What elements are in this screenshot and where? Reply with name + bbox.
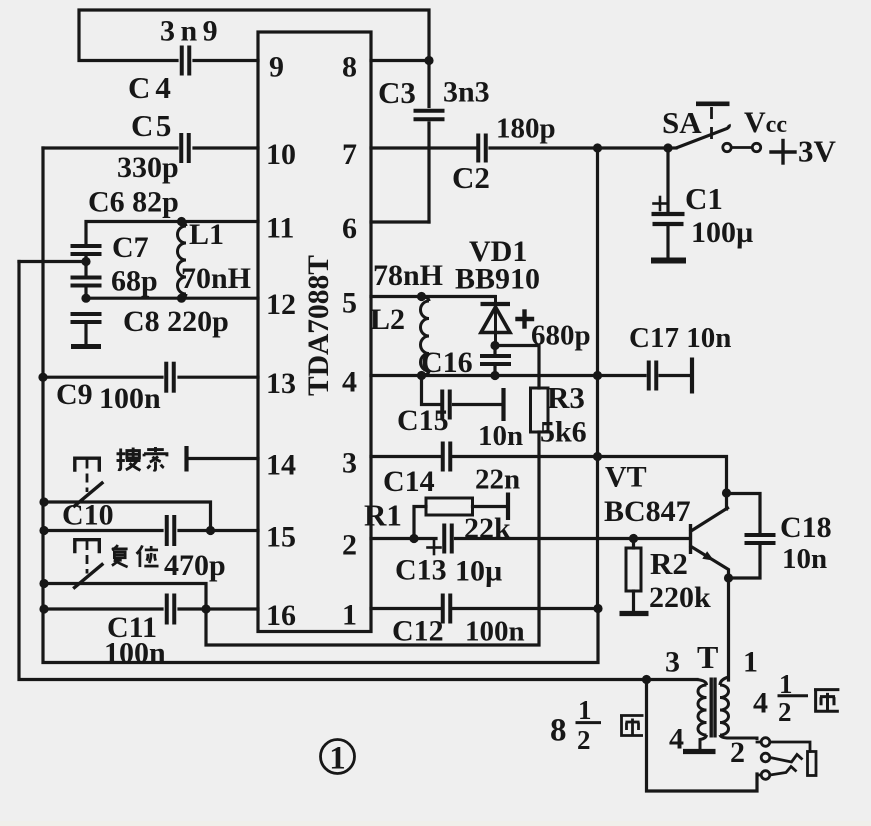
svg-text:C14: C14 bbox=[383, 465, 435, 498]
capacitor C12 bbox=[443, 594, 451, 624]
label C7 bbox=[112, 231, 149, 264]
capacitor C2 bbox=[478, 134, 486, 163]
svg-text:4: 4 bbox=[669, 723, 684, 756]
label C16 value 680p bbox=[531, 320, 591, 352]
node outer rail to transformer bbox=[642, 675, 651, 684]
wire main right rail bbox=[596, 148, 599, 609]
node R1 on pin2 wire bbox=[409, 534, 418, 543]
label R3 bbox=[547, 380, 585, 415]
label C14 value 22n bbox=[475, 464, 520, 496]
node pin4 on rail bbox=[593, 371, 602, 380]
label C2 bbox=[452, 160, 490, 195]
label C3 bbox=[378, 75, 416, 110]
svg-text:1: 1 bbox=[329, 741, 346, 777]
label transformer pin 1 bbox=[743, 646, 758, 679]
terminal bar C15 bbox=[501, 388, 505, 421]
label C2 value 180p bbox=[496, 113, 556, 145]
capacitor C1 polarity + bbox=[654, 197, 667, 210]
svg-text:3V: 3V bbox=[798, 134, 837, 169]
transistor VT collector bbox=[691, 508, 728, 531]
svg-text:78nH: 78nH bbox=[373, 259, 443, 292]
label R1 value 22k bbox=[464, 512, 511, 545]
svg-text:13: 13 bbox=[266, 367, 296, 400]
label primary turns 8 bbox=[550, 713, 567, 749]
wire inner left rail bbox=[43, 148, 598, 663]
label C6 82p bbox=[88, 186, 179, 219]
svg-text:C13: C13 bbox=[395, 554, 447, 587]
label primary turns fraction 1/2 bbox=[576, 695, 602, 755]
wire R3 bottom return to pin16 node bbox=[206, 432, 539, 645]
svg-text:8: 8 bbox=[342, 51, 357, 84]
svg-text:16: 16 bbox=[266, 599, 296, 632]
label C9 bbox=[56, 378, 93, 411]
wire C13 to base bbox=[456, 537, 688, 540]
wire R1 left lead bbox=[414, 507, 426, 539]
capacitor C5 bbox=[181, 133, 189, 163]
svg-text:C2: C2 bbox=[452, 160, 490, 195]
label R2 bbox=[650, 546, 688, 581]
svg-text:T: T bbox=[697, 639, 718, 675]
svg-text:C18: C18 bbox=[780, 511, 832, 544]
node search wire to pin 15 bbox=[206, 526, 215, 535]
wire C14 to rail bbox=[454, 455, 598, 458]
switch SA blade bbox=[668, 125, 729, 149]
svg-text:2: 2 bbox=[342, 529, 357, 562]
wire pin 14 bbox=[188, 457, 258, 460]
jack plug body bbox=[808, 752, 817, 776]
label C10 value 470p bbox=[164, 549, 226, 582]
capacitor C9 bbox=[166, 362, 174, 393]
switch SW search link dashes bbox=[86, 460, 89, 493]
wire C6 to C7 node bbox=[84, 254, 87, 275]
label reset 复位 bbox=[112, 545, 159, 567]
switch SA contact circles bbox=[723, 143, 761, 151]
wire pin 15 bbox=[44, 529, 258, 532]
wire emitter down to transformer bbox=[727, 578, 730, 680]
terminal bar R2 ground bbox=[620, 611, 649, 616]
label secondary turns 匝 bbox=[814, 690, 839, 712]
wire jack tip to plug bbox=[770, 742, 810, 752]
wire pin 10 to C5 bbox=[43, 146, 258, 149]
wire rail to collector bbox=[598, 457, 727, 510]
capacitor C6 bbox=[71, 246, 102, 254]
label L1 bbox=[189, 218, 224, 251]
svg-text:5: 5 bbox=[342, 287, 357, 320]
label transformer pin 2 bbox=[730, 736, 745, 769]
node emitter bbox=[724, 573, 733, 582]
svg-text:3n9: 3n9 bbox=[160, 15, 223, 48]
wire reset node to pin16 node bbox=[44, 584, 206, 610]
svg-text:C8 220p: C8 220p bbox=[123, 305, 229, 338]
inductor L1 bbox=[178, 222, 187, 299]
svg-text:1: 1 bbox=[743, 646, 758, 679]
capacitor C11 bbox=[167, 594, 175, 625]
switch SW reset contacts bbox=[75, 540, 100, 552]
label C10 bbox=[62, 499, 114, 532]
svg-text:VT: VT bbox=[605, 461, 647, 494]
wire C12 to rail bbox=[454, 607, 599, 610]
svg-text:BC847: BC847 bbox=[604, 495, 691, 528]
wire collector to C18 bbox=[727, 494, 761, 533]
node L1 top bbox=[177, 217, 186, 226]
terminal bar pin 14 bbox=[184, 446, 188, 472]
wire R2 top lead bbox=[632, 539, 635, 549]
wire pin 16 bbox=[44, 607, 258, 610]
svg-text:2: 2 bbox=[778, 697, 792, 727]
svg-text:C1: C1 bbox=[685, 181, 723, 216]
svg-text:100n: 100n bbox=[99, 382, 161, 415]
wire pin 13 to C9 bbox=[43, 376, 258, 379]
svg-text:14: 14 bbox=[266, 449, 296, 482]
svg-text:3: 3 bbox=[665, 646, 680, 679]
label C18 bbox=[780, 511, 832, 544]
svg-text:6: 6 bbox=[342, 212, 357, 245]
node L1 bottom bbox=[177, 294, 186, 303]
label C4 value 3n9 bbox=[160, 15, 223, 48]
svg-text:1: 1 bbox=[578, 695, 592, 725]
capacitor C1 plates bbox=[652, 214, 685, 224]
label C7 value 68p bbox=[111, 265, 158, 298]
node L2 bottom on pin4 bbox=[417, 371, 426, 380]
wire C7 to pin 12 bbox=[84, 286, 87, 299]
label C5 value 330p bbox=[117, 151, 179, 184]
node reset wire to pin 16 bbox=[201, 604, 210, 613]
svg-text:470p: 470p bbox=[164, 549, 226, 582]
label C16 bbox=[421, 346, 473, 379]
switch SA actuator dashed link bbox=[710, 107, 713, 144]
wire pin 2 to C13 bbox=[371, 537, 436, 540]
svg-text:680p: 680p bbox=[531, 320, 591, 352]
resistor R2 bbox=[626, 548, 641, 591]
svg-text:C15: C15 bbox=[397, 404, 449, 437]
svg-text:SA: SA bbox=[662, 105, 702, 140]
wire C1 top bbox=[666, 148, 669, 211]
resistor R1 bbox=[426, 498, 473, 515]
capacitor C13 bbox=[444, 524, 452, 554]
terminal bar below C8 bbox=[71, 344, 101, 349]
wire pin 1 to C12 bbox=[371, 607, 440, 610]
svg-text:10n: 10n bbox=[782, 543, 827, 575]
svg-text:12: 12 bbox=[266, 288, 296, 321]
svg-text:5k6: 5k6 bbox=[540, 416, 587, 449]
wire C15 right bbox=[454, 403, 502, 406]
wire R1 right lead bbox=[473, 505, 506, 508]
node SA/C1 bbox=[663, 143, 672, 152]
wire pin 4 bbox=[371, 374, 598, 377]
svg-text:1: 1 bbox=[342, 599, 357, 632]
switch SW search contacts bbox=[75, 458, 100, 470]
figure number circle 1 bbox=[321, 740, 355, 777]
wire C15 left bbox=[422, 376, 440, 405]
wire pin 11 bbox=[86, 222, 258, 244]
label C5 bbox=[131, 108, 174, 143]
node supply rail top bbox=[593, 143, 602, 152]
svg-text:8: 8 bbox=[550, 713, 567, 749]
wire R2 bottom lead bbox=[632, 591, 635, 611]
svg-text:22n: 22n bbox=[475, 464, 520, 496]
svg-text:L1: L1 bbox=[189, 218, 224, 251]
wire pin 12 bbox=[86, 297, 258, 300]
wire C8 to end bar bbox=[84, 322, 87, 344]
capacitor C4 bbox=[182, 46, 190, 76]
node reset blade on rail bbox=[39, 579, 48, 588]
node VD1/C16/680p junction bbox=[490, 341, 499, 350]
transformer T primary winding bbox=[697, 680, 707, 752]
label VD1 bbox=[469, 235, 527, 268]
capacitor C17 bbox=[649, 361, 657, 391]
capacitor C3 bbox=[414, 111, 445, 120]
jack contact 1 bbox=[757, 738, 770, 747]
label Vcc bbox=[744, 106, 787, 139]
svg-text:TDA7088T: TDA7088T bbox=[303, 255, 335, 396]
node pin3 on rail bbox=[593, 452, 602, 461]
svg-text:330p: 330p bbox=[117, 151, 179, 184]
svg-text:10: 10 bbox=[266, 138, 296, 171]
capacitor C14 bbox=[443, 442, 451, 472]
label L1 value 70nH bbox=[181, 262, 251, 295]
svg-text:3n3: 3n3 bbox=[443, 76, 490, 109]
transformer T secondary winding bbox=[720, 677, 757, 740]
svg-text:C6 82p: C6 82p bbox=[88, 186, 179, 219]
svg-text:4: 4 bbox=[753, 687, 768, 720]
wire outer rail drop to jack sleeve bbox=[647, 680, 758, 792]
capacitor C10 bbox=[167, 515, 175, 546]
svg-text:2: 2 bbox=[577, 725, 591, 755]
capacitor C18 bbox=[745, 535, 776, 543]
label C13 bbox=[395, 554, 447, 587]
label C15 value 10n bbox=[478, 420, 523, 452]
node C16 on pin4 wire bbox=[490, 371, 499, 380]
jack contact 3 spring bbox=[770, 767, 797, 776]
svg-text:68p: 68p bbox=[111, 265, 158, 298]
label VT bbox=[605, 461, 647, 494]
label secondary turns 4 bbox=[753, 687, 768, 720]
label C1 bbox=[685, 181, 723, 216]
svg-text:L2: L2 bbox=[370, 303, 405, 336]
label L2 bbox=[370, 303, 405, 336]
node C8 top on pin12 wire bbox=[81, 294, 90, 303]
svg-text:4: 4 bbox=[342, 366, 357, 399]
wire C1 bottom bbox=[666, 226, 669, 257]
resistor R3 bbox=[531, 388, 549, 432]
svg-text:C17 10n: C17 10n bbox=[629, 322, 731, 354]
svg-text:R2: R2 bbox=[650, 546, 688, 581]
label C9 value 100n bbox=[99, 382, 161, 415]
svg-text:180p: 180p bbox=[496, 113, 556, 145]
wire pin 8 bbox=[371, 59, 429, 62]
label transformer pin 4 bbox=[669, 723, 684, 756]
node R2 top on base wire bbox=[629, 534, 638, 543]
transistor VT base bar bbox=[689, 524, 692, 554]
label C14 bbox=[383, 465, 435, 498]
label R3 value 5k6 bbox=[540, 416, 587, 449]
U1 right pin numbers 8-1 bbox=[342, 51, 357, 632]
inductor L2 bbox=[421, 297, 430, 376]
varactor polarity + bbox=[518, 312, 533, 327]
capacitor C7 bbox=[71, 278, 102, 286]
label search 搜索 bbox=[117, 447, 167, 470]
capacitor C13 polarity + bbox=[428, 541, 441, 554]
svg-text:C3: C3 bbox=[378, 75, 416, 110]
wire 680p node to R3 bbox=[495, 346, 539, 389]
svg-text:10n: 10n bbox=[478, 420, 523, 452]
terminal bar C1 bottom bbox=[651, 258, 686, 264]
wire C18 bottom to emitter bbox=[729, 546, 761, 578]
terminal bar transformer pin4 ground bbox=[683, 749, 716, 754]
label VD1 type BB910 bbox=[455, 263, 540, 296]
svg-text:220k: 220k bbox=[649, 581, 711, 614]
label C4 bbox=[128, 70, 176, 105]
transformer T core bbox=[711, 678, 715, 738]
terminal bar C17 bbox=[690, 358, 694, 394]
svg-text:C7: C7 bbox=[112, 231, 149, 264]
wire antenna node to outer rail bbox=[19, 260, 86, 263]
switch SW search blade bbox=[75, 483, 103, 506]
wire search node to pin15 node bbox=[44, 502, 211, 531]
svg-text:70nH: 70nH bbox=[181, 262, 251, 295]
svg-text:7: 7 bbox=[342, 138, 357, 171]
label C12 bbox=[392, 615, 444, 648]
node pin15 on rail bbox=[39, 526, 48, 535]
svg-text:2: 2 bbox=[730, 736, 745, 769]
node collector C18 tap bbox=[722, 488, 731, 497]
jack contact 3 bbox=[757, 771, 770, 780]
jack contact 2 spring bbox=[770, 755, 803, 763]
svg-text:9: 9 bbox=[269, 51, 284, 84]
svg-text:100µ: 100µ bbox=[691, 216, 753, 249]
label C11 bbox=[107, 611, 157, 644]
label C8 220p bbox=[123, 305, 229, 338]
svg-text:C5: C5 bbox=[131, 108, 174, 143]
label transformer pin 3 bbox=[665, 646, 680, 679]
node pin8/C3 bbox=[424, 56, 433, 65]
jack contact 2 bbox=[761, 753, 770, 762]
wire C16 to pin4 wire bbox=[493, 346, 496, 376]
node C6/C7 junction to antenna rail bbox=[81, 257, 90, 266]
svg-text:100n: 100n bbox=[465, 616, 525, 648]
capacitor C16 bbox=[480, 356, 511, 364]
svg-text:15: 15 bbox=[266, 521, 296, 554]
label C18 value 10n bbox=[782, 543, 827, 575]
node L2 top bbox=[417, 292, 426, 301]
label R1 bbox=[364, 498, 402, 533]
svg-text:C10: C10 bbox=[62, 499, 114, 532]
transistor VT emitter bbox=[691, 547, 729, 578]
svg-text:C12: C12 bbox=[392, 615, 444, 648]
node pin16 on rail bbox=[39, 604, 48, 613]
label C15 bbox=[397, 404, 449, 437]
svg-text:R1: R1 bbox=[364, 498, 402, 533]
wire pin 9 to C4 and top loop to pin 8 node bbox=[79, 10, 429, 61]
varactor diode VD1 bbox=[481, 297, 511, 346]
terminal bar R1 bbox=[506, 493, 510, 521]
label C17 10n bbox=[629, 322, 731, 354]
wire C17 right bbox=[660, 374, 689, 377]
svg-text:C9: C9 bbox=[56, 378, 93, 411]
label R2 value 220k bbox=[649, 581, 711, 614]
wire outer left rail bbox=[19, 262, 697, 680]
switch SA actuator bar bbox=[696, 102, 730, 107]
svg-text:3: 3 bbox=[342, 447, 357, 480]
label L2 value 78nH bbox=[373, 259, 443, 292]
wire C17 left bbox=[598, 374, 646, 377]
label secondary turns fraction 1/2 bbox=[778, 669, 809, 727]
svg-text:C4: C4 bbox=[128, 70, 176, 105]
svg-text:100n: 100n bbox=[104, 637, 166, 670]
label VT type BC847 bbox=[604, 495, 691, 528]
svg-text:11: 11 bbox=[266, 212, 294, 245]
label C3 value 3n3 bbox=[443, 76, 490, 109]
svg-text:BB910: BB910 bbox=[455, 263, 540, 296]
label C13 value 10µ bbox=[455, 555, 502, 588]
switch SW reset blade bbox=[75, 565, 103, 588]
label C12 value 100n bbox=[465, 616, 525, 648]
label +3V bbox=[771, 134, 837, 169]
wire pin 5 bbox=[371, 295, 495, 298]
label primary turns 匝 bbox=[620, 716, 644, 736]
svg-text:R3: R3 bbox=[547, 380, 585, 415]
node C9 left on rail bbox=[38, 373, 47, 382]
U1 left pin numbers 9-16 bbox=[266, 51, 296, 633]
label transformer T bbox=[697, 639, 718, 675]
label SA bbox=[662, 105, 702, 140]
node search blade on rail bbox=[39, 497, 48, 506]
capacitor C15 bbox=[442, 390, 450, 420]
wire pin 7 to C2 bbox=[371, 146, 668, 149]
label C1 value 100µ bbox=[691, 216, 753, 249]
node pin1/rail/bottom bbox=[593, 604, 602, 613]
switch SW reset link dashes bbox=[86, 541, 89, 574]
label C11 value 100n bbox=[104, 637, 166, 670]
wire pin 3 to C14 bbox=[371, 455, 440, 458]
op-amp/IC U1 TDA7088T body bbox=[258, 32, 371, 632]
svg-text:10µ: 10µ bbox=[455, 555, 502, 588]
wire C3 vertical pin8 to pin6 bbox=[371, 61, 429, 223]
capacitor C8 bbox=[71, 314, 102, 322]
